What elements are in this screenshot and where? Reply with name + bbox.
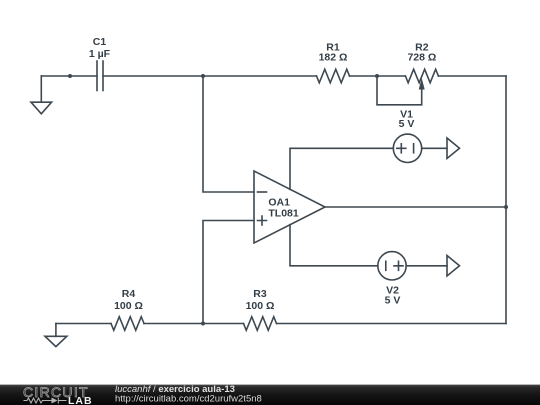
svg-text:R3: R3 [253, 288, 267, 300]
op-amp plus sign [258, 216, 267, 225]
CircuitLab logo resistor-diode glyph [24, 398, 67, 404]
svg-text:1 µF: 1 µF [89, 48, 111, 60]
voltage source V1 [393, 134, 421, 162]
wire (R2 wiper loop) [377, 76, 422, 105]
wire (bottom rail ground to R4) [56, 323, 111, 325]
svg-text:R4: R4 [122, 288, 136, 300]
svg-text:728 Ω: 728 Ω [407, 52, 436, 64]
svg-text:C1: C1 [93, 36, 107, 48]
resistor R3 [244, 317, 277, 331]
ground (top left) [31, 76, 52, 114]
resistor R4 [111, 317, 144, 331]
resistor R1 [317, 69, 350, 83]
wire (op-amp V- pin down to V2) [290, 225, 378, 266]
svg-text:TL081: TL081 [268, 207, 299, 219]
node (junction at x=203 top wire) [201, 74, 205, 78]
svg-text:5 V: 5 V [385, 295, 401, 307]
wire (V1 left lead to op-amp V+ pin) [290, 148, 393, 189]
wire (V2 right lead) [406, 265, 447, 267]
resistor R2 (potentiometer) [405, 69, 438, 83]
V1 output flag [447, 138, 460, 159]
op-amp minus sign [258, 191, 267, 193]
capacitor C1 [97, 61, 103, 91]
wire (right vertical rail) [505, 76, 507, 324]
R2 wiper arrow head [419, 78, 425, 90]
svg-text:http://circuitlab.com/cd2urufw: http://circuitlab.com/cd2urufw2t5n8 [115, 393, 262, 404]
node (junction bottom rail) [201, 322, 205, 326]
wire (top-left horizontal to C1) [41, 75, 97, 77]
svg-text:182 Ω: 182 Ω [319, 52, 348, 64]
wire (C1 to R1) [103, 75, 317, 77]
voltage source V2 [378, 252, 406, 280]
wire (op-amp output) [325, 206, 506, 208]
node (junction dot left of C1) [68, 74, 72, 78]
node (junction R1/R2 wiper tap) [375, 74, 379, 78]
svg-text:100 Ω: 100 Ω [246, 300, 275, 312]
svg-text:5 V: 5 V [399, 118, 415, 130]
wire (V1 right lead) [422, 147, 447, 149]
ground (bottom left) [45, 324, 67, 347]
wire (vertical from top junction to inverting input) [203, 76, 254, 192]
svg-text:100 Ω: 100 Ω [114, 300, 143, 312]
node (output junction on right rail) [504, 205, 508, 209]
svg-text:LAB: LAB [68, 395, 93, 405]
op-amp OA1 [254, 171, 325, 243]
wire (R1 to R2) [350, 75, 406, 77]
V2 output flag [447, 256, 460, 277]
wire (R2 to right rail) [438, 75, 506, 77]
wire (non-inverting input to bottom rail) [203, 221, 254, 324]
footer bar [0, 385, 540, 405]
wire (R3 to right rail) [277, 323, 507, 325]
wire (R4 to R3) [144, 323, 244, 325]
